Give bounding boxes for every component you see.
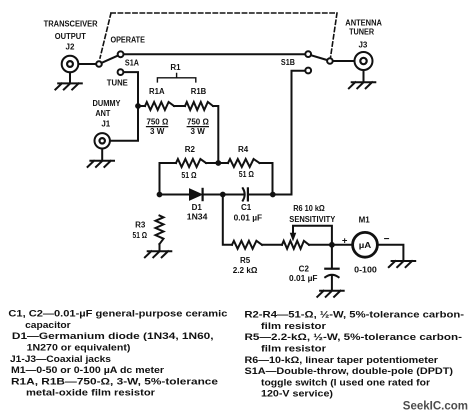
potentiometer R6 wiper arrow — [290, 233, 295, 240]
resistor R1A 750 ohm — [145, 102, 174, 110]
switch S1B lower contact — [305, 68, 311, 74]
svg-text:R2: R2 — [185, 145, 196, 154]
wire R1B to top row corner — [213, 106, 218, 163]
switch S1A tune contact — [118, 69, 124, 75]
resistor R4 51 ohm — [228, 159, 260, 167]
svg-text:51 Ω: 51 Ω — [181, 171, 197, 180]
svg-text:120-V service): 120-V service) — [261, 388, 333, 399]
wire J2 to S1A pole — [79, 63, 97, 65]
potentiometer R6 10k element — [282, 241, 309, 249]
svg-text:R6—10-kΩ, linear taper potenti: R6—10-kΩ, linear taper potentiometer — [245, 354, 439, 365]
switch S1B pole — [327, 58, 333, 64]
wire left rail between rows — [159, 163, 161, 195]
svg-text:51 Ω: 51 Ω — [239, 170, 255, 179]
wire node B down to R5 row — [223, 195, 232, 245]
svg-text:ANTENNA: ANTENNA — [345, 19, 382, 28]
dashed gang link of DPDT switch S1 — [100, 13, 337, 58]
svg-text:ANT: ANT — [95, 109, 110, 118]
svg-text:1N34: 1N34 — [187, 212, 208, 221]
wire D1 cathode to node B — [203, 194, 244, 196]
switch S1B arm — [311, 55, 327, 60]
svg-text:S1A: S1A — [125, 58, 139, 67]
wire top row middle — [206, 162, 228, 164]
wire top row right corner down — [260, 163, 273, 195]
svg-text:M1: M1 — [359, 216, 371, 225]
svg-text:R5: R5 — [240, 256, 251, 265]
junction node left rail — [157, 192, 163, 198]
resistor R3 51 ohm — [156, 216, 164, 245]
wire S1A operate contact to S1B upper contact — [124, 53, 306, 55]
resistor R2 51 ohm — [176, 159, 206, 167]
svg-text:J2: J2 — [66, 43, 75, 52]
wire C2 to ground — [331, 276, 333, 291]
svg-text:+: + — [342, 236, 348, 247]
svg-text:toggle switch (I used one rate: toggle switch (I used one rated for — [261, 376, 430, 387]
meter M1 — [353, 232, 378, 257]
svg-text:S1B: S1B — [281, 58, 295, 67]
svg-text:3 W: 3 W — [150, 127, 165, 136]
resistor R5 2.2k — [232, 241, 262, 249]
svg-text:1N270 or equivalent): 1N270 or equivalent) — [27, 342, 131, 353]
svg-text:OUTPUT: OUTPUT — [55, 32, 86, 41]
svg-text:film resistor: film resistor — [261, 320, 326, 331]
ground under J3 — [349, 82, 375, 88]
ground under J1 — [88, 161, 114, 167]
svg-text:D1—Germanium diode (1N34, 1N60: D1—Germanium diode (1N34, 1N60, — [12, 330, 214, 341]
svg-text:R2-R4—51-Ω, ½-W, 5%-tolerance: R2-R4—51-Ω, ½-W, 5%-tolerance carbon- — [244, 309, 464, 320]
coaxial jack J1 — [95, 133, 110, 148]
svg-text:−: − — [384, 234, 390, 245]
wire detector row left — [160, 194, 190, 196]
svg-text:R1B: R1B — [191, 87, 207, 96]
wire C1 to node C — [249, 194, 292, 196]
svg-text:film resistor: film resistor — [261, 343, 326, 354]
switch S1A pole — [96, 61, 102, 67]
svg-text:R1A: R1A — [149, 87, 165, 96]
wire J1 ground stub — [101, 149, 103, 161]
wire S1B pole to J3 — [332, 60, 354, 62]
svg-text:C1: C1 — [241, 203, 252, 212]
wire node A to R1A — [138, 105, 145, 107]
wire J3 ground stub — [363, 70, 365, 82]
svg-text:R6 10 kΩ: R6 10 kΩ — [293, 204, 325, 213]
ground meter return — [389, 261, 415, 267]
ground under R3 — [145, 251, 171, 257]
svg-text:R4: R4 — [238, 145, 249, 154]
svg-text:750 Ω: 750 Ω — [146, 117, 168, 126]
resistor R1B 750 ohm — [185, 102, 213, 110]
svg-text:R3: R3 — [135, 221, 146, 230]
junction node top (R1B/R2/R4) — [215, 160, 221, 166]
wire J1 to dummy-ant node — [110, 106, 138, 141]
wire meter node down to C2 — [331, 245, 333, 269]
svg-text:capacitor: capacitor — [25, 319, 71, 330]
junction node B (detector) — [220, 192, 226, 198]
wire R1A-R1B link — [174, 105, 185, 107]
svg-text:0-100: 0-100 — [354, 266, 377, 275]
switch S1A arm — [102, 56, 118, 63]
svg-text:0.01 µF: 0.01 µF — [234, 214, 263, 223]
coaxial jack J3 — [355, 52, 373, 70]
svg-text:3 W: 3 W — [191, 127, 206, 136]
svg-text:R1: R1 — [170, 63, 181, 72]
diode D1 1N34 — [190, 189, 203, 200]
svg-text:TUNE: TUNE — [107, 79, 129, 88]
wire R5 to R6 — [262, 244, 282, 246]
svg-text:R5—2.2-kΩ, ½-W, 5%-tolerance c: R5—2.2-kΩ, ½-W, 5%-tolerance carbon- — [245, 331, 463, 342]
ground under J2 — [55, 83, 81, 89]
svg-text:µA: µA — [359, 241, 372, 250]
capacitor C2 0.01uF — [325, 268, 338, 270]
svg-text:J1: J1 — [101, 120, 110, 129]
wire S1A tune contact down to dummy-ant node — [124, 72, 139, 106]
wire top row left — [160, 162, 177, 164]
svg-text:TUNER: TUNER — [349, 27, 374, 36]
svg-text:OPERATE: OPERATE — [110, 36, 145, 45]
svg-text:metal-oxide film resistor: metal-oxide film resistor — [26, 387, 155, 398]
svg-text:D1: D1 — [192, 203, 203, 212]
coaxial jack J2 — [62, 56, 79, 73]
wire R3 bottom stub — [159, 244, 161, 251]
wire R6 wiper to meter node — [293, 226, 332, 245]
svg-text:R1A, R1B—750-Ω, 3-W, 5%-tolera: R1A, R1B—750-Ω, 3-W, 5%-tolerance — [11, 375, 218, 386]
junction node C — [270, 192, 276, 198]
svg-text:S1A—Double-throw, double-pole: S1A—Double-throw, double-pole (DPDT) — [245, 365, 454, 376]
svg-text:TRANSCEIVER: TRANSCEIVER — [44, 20, 98, 29]
junction node D (meter +) — [329, 242, 335, 248]
wire J2 ground stub — [69, 72, 71, 83]
svg-text:2.2 kΩ: 2.2 kΩ — [233, 266, 258, 275]
svg-text:C2: C2 — [299, 265, 310, 274]
svg-text:C1, C2—0.01-µF general-purpose: C1, C2—0.01-µF general-purpose ceramic — [8, 308, 227, 319]
junction node A (dummy ant) — [135, 103, 141, 109]
svg-text:J3: J3 — [358, 41, 367, 50]
svg-text:SeekIC.com: SeekIC.com — [403, 401, 468, 413]
wire S1B lower contact down to detector row — [292, 71, 306, 195]
switch S1B upper contact — [305, 51, 311, 57]
svg-text:J1-J3—Coaxial jacks: J1-J3—Coaxial jacks — [10, 353, 111, 364]
capacitor C1 0.01uF — [243, 188, 245, 200]
svg-text:0.01 µF: 0.01 µF — [289, 274, 318, 283]
svg-text:750 Ω: 750 Ω — [187, 117, 209, 126]
wire R6 to meter node — [309, 244, 351, 246]
switch S1A operate contact — [118, 51, 124, 57]
svg-text:DUMMY: DUMMY — [93, 99, 122, 108]
ground under C2 — [317, 291, 343, 297]
svg-text:M1—0-50 or 0-100 µA dc meter: M1—0-50 or 0-100 µA dc meter — [11, 364, 164, 375]
svg-text:SENSITIVITY: SENSITIVITY — [289, 215, 336, 224]
bracket R1 group — [157, 73, 195, 82]
svg-text:51 Ω: 51 Ω — [133, 231, 148, 240]
wire meter minus to ground — [379, 245, 404, 261]
